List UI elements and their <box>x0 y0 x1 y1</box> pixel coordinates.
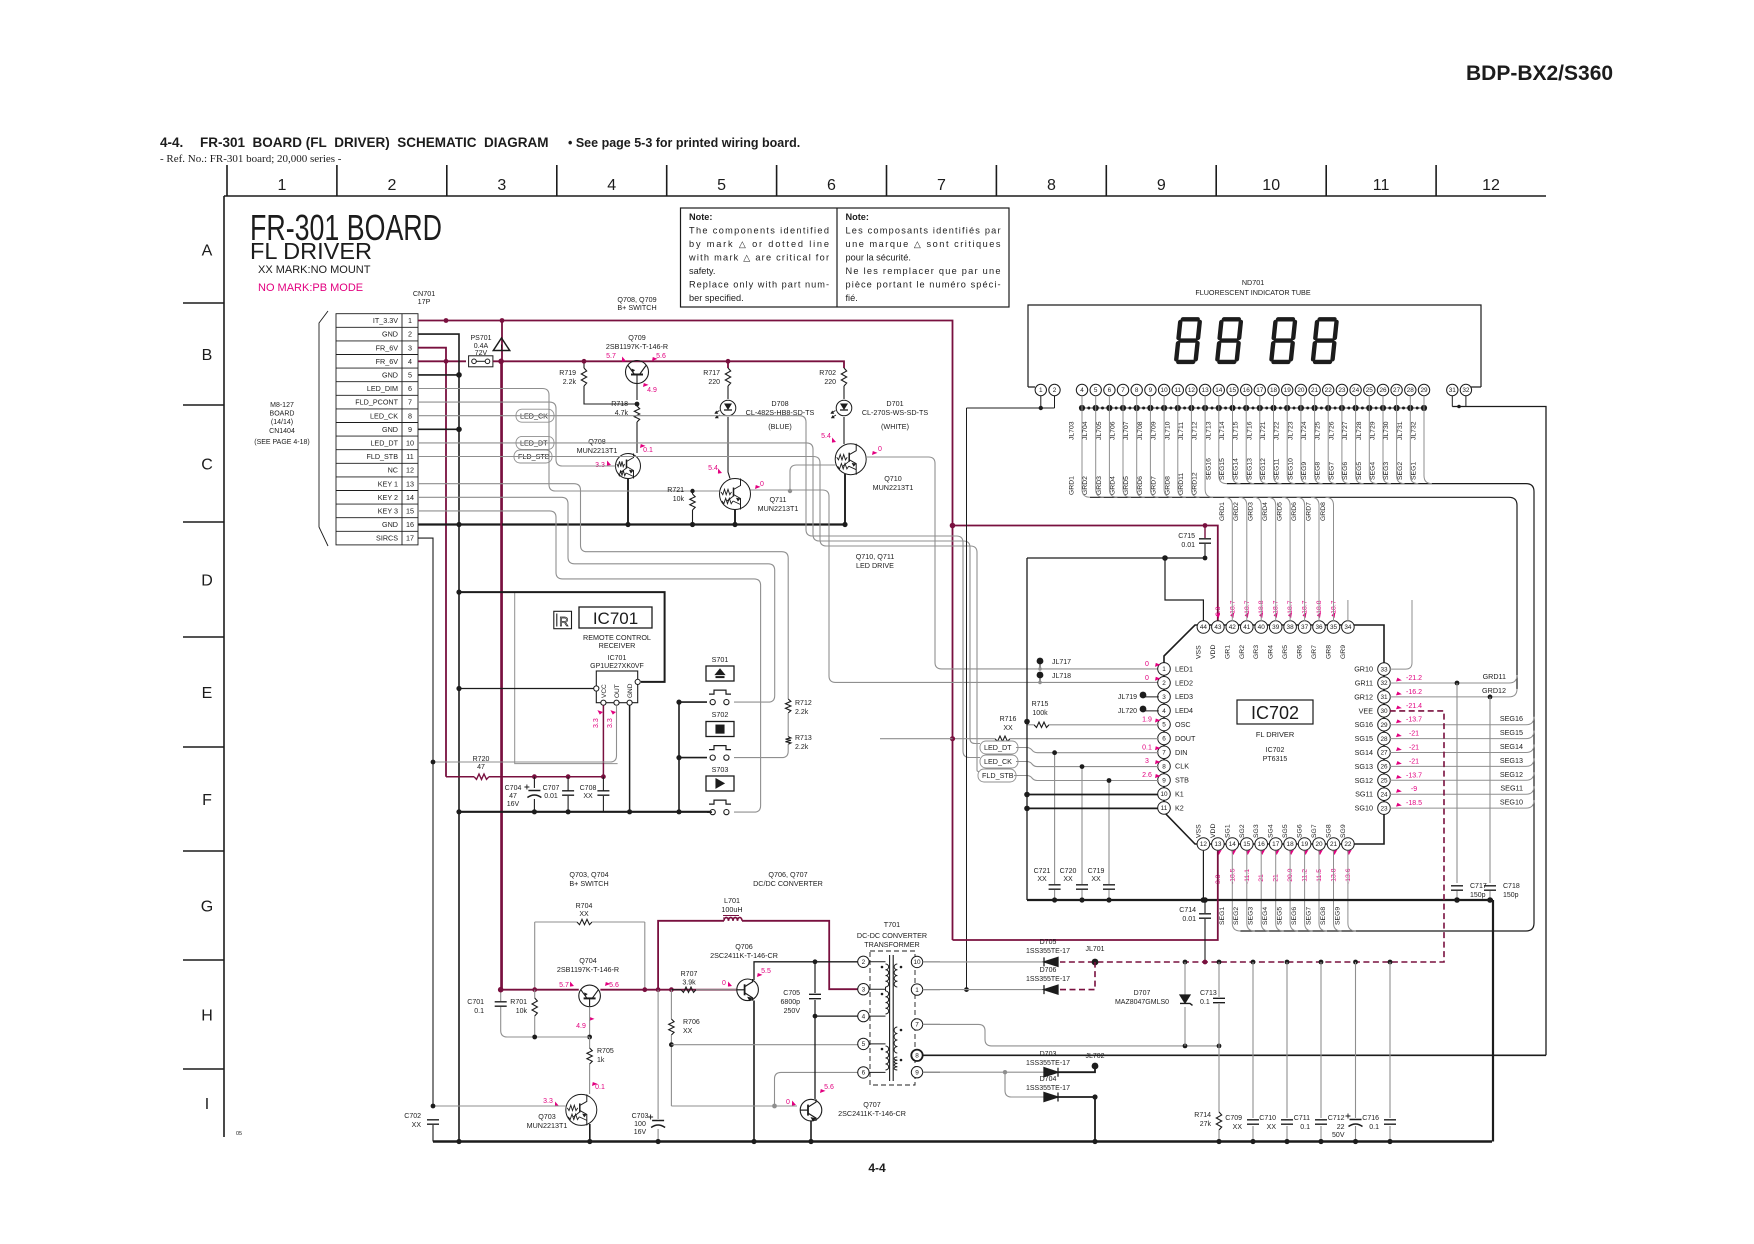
svg-text:SEG13: SEG13 <box>1246 458 1253 480</box>
capacitor C717 body <box>1451 886 1463 890</box>
svg-text:XX: XX <box>579 911 589 918</box>
svg-text:2: 2 <box>408 330 412 339</box>
junction <box>456 590 461 595</box>
svg-text:9: 9 <box>1157 177 1166 194</box>
net flag LED_DT 2 <box>980 741 1018 754</box>
wire FLD_STB route <box>418 457 980 772</box>
wire FL ground line <box>1027 899 1493 901</box>
svg-text:SG11: SG11 <box>1355 790 1373 799</box>
svg-text:IC702: IC702 <box>1266 747 1285 754</box>
capacitor C707 body <box>562 791 574 795</box>
svg-text:5: 5 <box>862 1041 866 1048</box>
svg-text:JL726: JL726 <box>1328 421 1335 440</box>
svg-text:11: 11 <box>1161 805 1168 812</box>
zener D707 body <box>1180 995 1193 1005</box>
svg-text:SEG3: SEG3 <box>1248 907 1255 925</box>
svg-text:JL710: JL710 <box>1164 421 1171 440</box>
wire 3.3V drop to B+ switch <box>501 321 503 990</box>
capacitor C705 body <box>809 994 821 998</box>
svg-text:100k: 100k <box>1032 710 1048 717</box>
svg-text:- Ref. No.: FR-301 board; 20,0: - Ref. No.: FR-301 board; 20,000 series … <box>160 153 342 165</box>
svg-text:FL DRIVER: FL DRIVER <box>250 238 372 264</box>
transformer T701 right pins <box>911 956 922 967</box>
capacitor C718 body <box>1484 886 1496 890</box>
svg-text:GRD8: GRD8 <box>1320 502 1327 521</box>
wire VSS bottom <box>1202 851 1204 900</box>
svg-text:R701: R701 <box>510 999 527 1006</box>
junction <box>950 736 955 741</box>
wire <box>1218 1046 1220 1112</box>
svg-text:!: ! <box>500 343 503 352</box>
svg-text:100uH: 100uH <box>721 905 742 914</box>
svg-text:9: 9 <box>1162 777 1166 784</box>
wire to L701 <box>658 921 724 990</box>
svg-text:VSS: VSS <box>1195 645 1202 659</box>
wire <box>501 1007 590 1037</box>
svg-text:IC702: IC702 <box>1251 703 1299 723</box>
resistor R702 body <box>841 368 846 386</box>
svg-text:4: 4 <box>1162 708 1166 715</box>
transformer T701 dashed box <box>870 951 915 1085</box>
svg-text:C714: C714 <box>1179 907 1196 914</box>
svg-text:SEG4: SEG4 <box>1262 907 1269 925</box>
wire SG13 pin <box>1390 765 1519 767</box>
svg-text:JL725: JL725 <box>1315 421 1322 440</box>
wire IT_3.3V rail <box>418 321 953 941</box>
wire <box>1184 1007 1186 1046</box>
border frame ruler <box>224 195 1546 197</box>
svg-text:KEY 2: KEY 2 <box>378 493 398 502</box>
svg-text:RECEIVER: RECEIVER <box>599 641 636 650</box>
svg-text:3.9k: 3.9k <box>682 980 696 987</box>
wire <box>432 1125 434 1142</box>
diode D706 body <box>1044 985 1058 994</box>
wire tube SEG10 merge <box>1301 396 1309 484</box>
svg-text:JL703: JL703 <box>1069 421 1076 440</box>
wire tube SEG14 merge <box>1246 396 1254 484</box>
svg-text:30: 30 <box>1380 708 1388 715</box>
wire <box>1204 900 1206 913</box>
svg-text:15: 15 <box>406 507 414 516</box>
wire <box>670 990 672 1019</box>
svg-text:4: 4 <box>1080 387 1084 394</box>
wire tube GRD merge 6 <box>1109 396 1117 498</box>
diode D703 body <box>1044 1068 1058 1077</box>
svg-text:C707: C707 <box>543 785 560 792</box>
svg-text:SEG15: SEG15 <box>1500 728 1523 737</box>
svg-text:33: 33 <box>1380 666 1388 673</box>
svg-text:5.5: 5.5 <box>761 968 771 975</box>
svg-text:SEG6: SEG6 <box>1342 462 1349 480</box>
svg-text:0: 0 <box>722 980 726 987</box>
resistor R717 body <box>725 368 730 386</box>
svg-text:47: 47 <box>477 764 485 771</box>
svg-text:GRD1: GRD1 <box>1219 502 1226 521</box>
svg-text:SEG4: SEG4 <box>1370 462 1377 480</box>
svg-text:18: 18 <box>1270 387 1278 394</box>
junction <box>431 1104 436 1109</box>
wire D706 dashed to JL701 <box>1060 962 1095 990</box>
wire <box>1320 1126 1322 1142</box>
wire tube GRD merge 5 <box>1096 396 1104 498</box>
resistor R707 body <box>681 987 696 992</box>
wire SG14 pin <box>1390 752 1519 754</box>
transistor Q707 symbol <box>800 1099 822 1121</box>
svg-text:GRD1: GRD1 <box>1069 476 1076 495</box>
wire <box>500 990 502 1001</box>
wire SEG12 hook <box>1519 772 1534 780</box>
diode D705 body <box>1044 957 1058 966</box>
wire T701 pin9 out <box>923 1071 940 1073</box>
capacitor C713 body <box>1213 998 1225 1002</box>
svg-text:4: 4 <box>862 1013 866 1020</box>
tube digit 4 <box>1313 319 1337 362</box>
svg-text:2: 2 <box>1162 680 1166 687</box>
svg-text:14: 14 <box>1215 387 1223 394</box>
svg-text:SEG13: SEG13 <box>1500 756 1523 765</box>
svg-text:GRD3: GRD3 <box>1096 476 1103 495</box>
svg-text:FLD_STB: FLD_STB <box>982 771 1014 780</box>
svg-text:SEG2: SEG2 <box>1397 462 1404 480</box>
svg-text:2SC2411K-T-146-CR: 2SC2411K-T-146-CR <box>710 951 778 960</box>
wire SG10 pin <box>1390 807 1519 809</box>
wire Q711 emitter <box>734 510 736 525</box>
svg-text:BOARD: BOARD <box>270 411 295 418</box>
wire GRD3 split <box>1253 497 1261 621</box>
svg-text:D706: D706 <box>1040 967 1057 974</box>
capacitor C701 body <box>495 1002 507 1006</box>
junction <box>566 809 571 814</box>
wire pin8 filament return <box>923 1054 1546 1056</box>
tube digit 2 <box>1217 319 1241 362</box>
IC701 label box <box>579 607 652 628</box>
svg-text:7: 7 <box>915 1022 919 1029</box>
wire <box>707 811 712 813</box>
wire K scan left <box>1026 558 1028 900</box>
svg-text:5.4: 5.4 <box>821 433 831 440</box>
svg-text:10k: 10k <box>516 1008 528 1015</box>
svg-text:1SS355TE-17: 1SS355TE-17 <box>1026 1060 1070 1067</box>
wire <box>1027 724 1034 726</box>
wire LED2 from Q711 <box>751 490 1159 682</box>
svg-text:29: 29 <box>1420 387 1428 394</box>
svg-text:27k: 27k <box>1200 1121 1212 1128</box>
wire tube SEG8 merge <box>1328 396 1336 484</box>
IR logo <box>554 611 572 629</box>
wire R704 right <box>592 921 645 923</box>
svg-text:7: 7 <box>937 177 946 194</box>
svg-text:100: 100 <box>634 1121 646 1128</box>
svg-text:XX: XX <box>1233 1124 1243 1131</box>
svg-text:R720: R720 <box>473 756 490 763</box>
wire SG11 pin <box>1390 793 1519 795</box>
wire GRD11 hook <box>1502 675 1517 683</box>
wire filament right drop <box>1452 407 1546 1056</box>
svg-text:2.2k: 2.2k <box>795 709 809 716</box>
svg-text:VEE: VEE <box>1359 706 1374 715</box>
svg-text:SEG6: SEG6 <box>1291 907 1298 925</box>
wire SG2 split <box>1247 851 1255 931</box>
svg-text:GND: GND <box>382 371 398 380</box>
svg-text:MAZ8047GMLS0: MAZ8047GMLS0 <box>1115 999 1169 1006</box>
svg-text:CLK: CLK <box>1175 762 1189 771</box>
svg-text:L701: L701 <box>724 896 740 905</box>
svg-text:4.9: 4.9 <box>576 1023 586 1030</box>
svg-text:15: 15 <box>1229 387 1237 394</box>
svg-text:M8-127: M8-127 <box>270 402 294 409</box>
svg-text:19: 19 <box>1284 387 1292 394</box>
svg-text:-21: -21 <box>1409 731 1419 738</box>
svg-text:0.01: 0.01 <box>544 793 558 800</box>
T701 windings <box>886 964 889 987</box>
svg-text:R705: R705 <box>597 1048 614 1055</box>
svg-text:JL712: JL712 <box>1192 421 1199 440</box>
svg-text:JL719: JL719 <box>1118 694 1137 701</box>
capacitor C712 body <box>1349 1120 1363 1127</box>
svg-text:T701: T701 <box>884 920 900 929</box>
wire FR_6V down to R720 <box>445 361 447 776</box>
svg-text:XX: XX <box>1091 876 1101 883</box>
svg-text:JL701: JL701 <box>1085 946 1104 953</box>
svg-text:150p: 150p <box>1470 892 1486 899</box>
svg-text:JL711: JL711 <box>1178 422 1185 440</box>
svg-text:SG8: SG8 <box>1326 824 1333 838</box>
wire VDD rail to IC702 <box>953 526 1218 622</box>
svg-text:SEG9: SEG9 <box>1334 907 1341 925</box>
junction <box>1203 523 1208 528</box>
svg-text:SEG7: SEG7 <box>1306 907 1313 925</box>
wire <box>534 1016 536 1037</box>
wire VSS top <box>1165 558 1203 621</box>
svg-text:4: 4 <box>607 177 616 194</box>
wire <box>1108 781 1110 885</box>
IC IC702 outline <box>1164 625 1384 844</box>
svg-text:SEG16: SEG16 <box>1500 714 1523 723</box>
svg-text:R719: R719 <box>559 370 576 377</box>
svg-text:(SEE PAGE 4-18): (SEE PAGE 4-18) <box>254 439 310 446</box>
wire tube SEG9 merge <box>1315 396 1323 484</box>
svg-text:C713: C713 <box>1200 990 1217 997</box>
net flag LED_DT <box>516 436 554 449</box>
capacitor C711 body <box>1315 1120 1327 1124</box>
LED D701 symbol <box>830 400 851 418</box>
wire tube SEG4 merge <box>1383 396 1391 484</box>
svg-text:JL705: JL705 <box>1096 421 1103 440</box>
svg-text:GRD6: GRD6 <box>1137 476 1144 495</box>
svg-text:5.4: 5.4 <box>708 465 718 472</box>
wire R705 to Q703 <box>589 1064 591 1094</box>
junction <box>456 1139 461 1144</box>
svg-text:JL732: JL732 <box>1411 421 1418 440</box>
svg-text:13: 13 <box>1214 841 1222 848</box>
svg-text:8: 8 <box>408 411 412 420</box>
svg-text:11: 11 <box>1174 387 1181 394</box>
svg-text:MUN2213T1: MUN2213T1 <box>527 1121 568 1130</box>
wire L701 to T701 pin3 <box>742 921 858 989</box>
wire T701 pin7 out <box>923 1023 940 1025</box>
junction <box>1251 960 1256 965</box>
svg-text:Q703: Q703 <box>538 1112 556 1121</box>
wire <box>1204 919 1206 962</box>
junction <box>444 318 449 323</box>
wire R716 to DOUT <box>1010 738 1159 740</box>
wire D704 to bus <box>1058 1097 1095 1142</box>
svg-text:I: I <box>205 1096 209 1113</box>
svg-text:SEG15: SEG15 <box>1219 458 1226 480</box>
wire VDD rail bottom <box>953 851 1218 940</box>
svg-text:• See page 5-3 for printed wir: • See page 5-3 for printed wiring board. <box>568 136 800 150</box>
wire GRD bus <box>1090 497 1517 689</box>
svg-text:43: 43 <box>1214 624 1222 631</box>
junction <box>964 987 969 992</box>
wire to T701 pin5 <box>671 1044 857 1046</box>
svg-text:5.6: 5.6 <box>656 353 666 360</box>
svg-text:FR_6V: FR_6V <box>376 357 399 366</box>
svg-text:10: 10 <box>1262 177 1280 194</box>
svg-text:Q708: Q708 <box>588 437 606 446</box>
svg-text:0: 0 <box>760 481 764 488</box>
wire GRD5 split <box>1282 497 1290 621</box>
svg-text:Ne les remplacer que par une: Ne les remplacer que par une <box>846 266 1001 276</box>
svg-text:R: R <box>559 614 568 629</box>
svg-text:(WHITE): (WHITE) <box>881 422 909 431</box>
wire R718 to Q708 <box>636 422 638 453</box>
svg-text:SEG9: SEG9 <box>1301 462 1308 480</box>
svg-text:LED2: LED2 <box>1175 678 1193 687</box>
svg-text:D: D <box>201 573 213 590</box>
wire <box>602 777 604 791</box>
wire R720 left <box>446 776 474 778</box>
svg-text:7: 7 <box>408 398 412 407</box>
svg-text:C711: C711 <box>1294 1115 1310 1122</box>
junction <box>751 1139 756 1144</box>
svg-text:9: 9 <box>915 1069 919 1076</box>
svg-text:SG14: SG14 <box>1355 748 1373 757</box>
wire B+ drop to Q704 <box>500 361 502 989</box>
svg-text:SEG5: SEG5 <box>1356 462 1363 480</box>
wire GND pin5 <box>418 374 459 376</box>
wire <box>1081 767 1083 884</box>
svg-text:11: 11 <box>406 452 413 461</box>
svg-text:FR-301 BOARD (FL DRIVER) SC: FR-301 BOARD (FL DRIVER) SCHEMATIC DIAGR… <box>200 135 549 150</box>
svg-text:12: 12 <box>1200 841 1208 848</box>
capacitor C709 body <box>1247 1120 1259 1124</box>
svg-text:6: 6 <box>862 1070 866 1077</box>
svg-text:GP1UE27XK0VF: GP1UE27XK0VF <box>590 663 644 670</box>
svg-text:SEG3: SEG3 <box>1383 462 1390 480</box>
svg-text:SG6: SG6 <box>1297 824 1304 838</box>
wire GND pin9 <box>418 428 459 430</box>
junction <box>1285 960 1290 965</box>
svg-text:S702: S702 <box>712 710 729 719</box>
wire GR10 stub <box>1390 600 1412 669</box>
svg-text:JL731: JL731 <box>1397 421 1404 440</box>
svg-text:IC701: IC701 <box>608 655 627 662</box>
junction <box>676 700 681 705</box>
wire SEG11 hook <box>1519 786 1534 794</box>
svg-text:Q710, Q711: Q710, Q711 <box>856 552 895 561</box>
junction <box>1024 792 1030 798</box>
wire Q703 emitter <box>589 1124 591 1142</box>
wire <box>692 510 694 525</box>
svg-text:C703: C703 <box>632 1113 649 1120</box>
svg-text:GRD11: GRD11 <box>1178 473 1185 495</box>
wire tube GRD merge 10 <box>1164 396 1172 498</box>
svg-text:C719: C719 <box>1088 868 1105 875</box>
wire SG1 split <box>1232 851 1240 931</box>
junction <box>566 774 571 779</box>
wire GRD11 to C717 <box>1456 683 1458 883</box>
svg-text:23: 23 <box>1338 387 1346 394</box>
svg-text:0.1: 0.1 <box>595 1084 605 1091</box>
IC701 block outline <box>515 592 665 764</box>
wire <box>1320 962 1322 1118</box>
wire tube SEG16 merge <box>1219 396 1227 484</box>
svg-text:17: 17 <box>1256 387 1264 394</box>
wire GR9 stub <box>1347 600 1349 621</box>
svg-text:GR2: GR2 <box>1239 645 1246 659</box>
svg-text:C716: C716 <box>1362 1115 1379 1122</box>
svg-text:C709: C709 <box>1225 1115 1242 1122</box>
svg-text:16: 16 <box>1258 841 1266 848</box>
svg-text:28: 28 <box>1380 736 1388 743</box>
svg-text:XX: XX <box>1037 876 1047 883</box>
svg-text:JL702: JL702 <box>1085 1053 1104 1060</box>
wire tube pin1 <box>1040 396 1042 408</box>
junction <box>669 987 674 992</box>
junction <box>1454 897 1460 903</box>
svg-text:SG5: SG5 <box>1282 824 1289 838</box>
svg-text:C720: C720 <box>1060 868 1077 875</box>
svg-text:SEG1: SEG1 <box>1219 907 1226 925</box>
junction <box>601 774 606 779</box>
svg-text:S703: S703 <box>712 765 729 774</box>
wire tube pin2 <box>1054 396 1056 408</box>
svg-text:-13.7: -13.7 <box>1406 717 1422 724</box>
wire SG12 pin <box>1390 779 1519 781</box>
wire SEG16 hook <box>1519 717 1534 725</box>
wire SEG bus <box>1227 484 1534 931</box>
wire <box>1218 962 1220 997</box>
svg-text:-21: -21 <box>1409 745 1419 752</box>
junction <box>1140 692 1147 699</box>
svg-text:FR_6V: FR_6V <box>376 343 399 352</box>
svg-text:OUT: OUT <box>614 684 621 698</box>
svg-text:XX: XX <box>412 1122 422 1129</box>
svg-text:3.3: 3.3 <box>543 1098 553 1105</box>
svg-text:3: 3 <box>1162 694 1166 701</box>
svg-text:JL728: JL728 <box>1356 421 1363 440</box>
transistor Q711 symbol <box>720 479 751 510</box>
svg-text:16: 16 <box>406 520 414 529</box>
svg-text:B+ SWITCH: B+ SWITCH <box>569 879 608 888</box>
junction <box>1003 1070 1007 1074</box>
svg-text:GRD2: GRD2 <box>1082 476 1089 495</box>
wire SG9 split <box>1348 851 1356 931</box>
svg-text:250V: 250V <box>784 1008 801 1015</box>
svg-text:SG7: SG7 <box>1311 824 1318 838</box>
svg-text:GR3: GR3 <box>1253 645 1260 659</box>
junction <box>1038 681 1042 685</box>
junction <box>498 987 504 993</box>
net flag LED_CK <box>516 409 554 422</box>
svg-text:17P: 17P <box>418 297 431 306</box>
svg-text:FLD_STB: FLD_STB <box>366 452 398 461</box>
wire tube SEG1 merge <box>1424 396 1432 484</box>
wire <box>1355 1126 1357 1142</box>
note box <box>681 208 1010 307</box>
svg-text:14: 14 <box>406 493 414 502</box>
